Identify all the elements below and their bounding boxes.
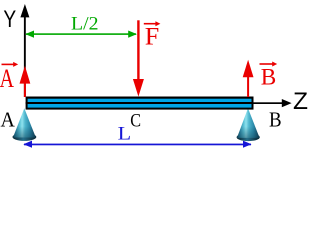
- svg-text:A: A: [1, 108, 16, 132]
- svg-text:Z: Z: [293, 88, 308, 115]
- svg-text:Y: Y: [3, 6, 16, 33]
- svg-text:C: C: [130, 111, 141, 132]
- svg-text:B: B: [269, 108, 282, 132]
- svg-text:A: A: [0, 64, 14, 93]
- svg-text:B: B: [261, 65, 277, 90]
- svg-text:L: L: [118, 123, 131, 144]
- svg-text:L/2: L/2: [71, 14, 99, 35]
- svg-text:F: F: [145, 24, 160, 51]
